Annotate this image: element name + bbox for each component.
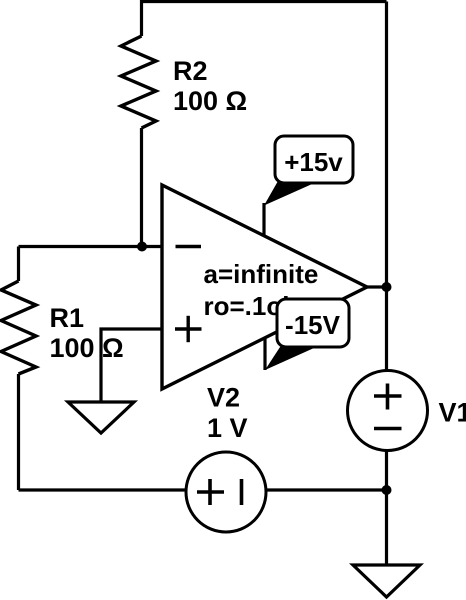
op-amp U1 non-inverting input plus sign (175, 316, 202, 342)
wire inverting input from R1/R2 node to op-amp (19, 245, 163, 248)
svg-text:1 V: 1 V (207, 413, 248, 443)
V1 plus sign (374, 384, 402, 410)
wire V+ power pin stub (262, 203, 265, 236)
wire top feedback from R2 top to right rail (142, 2, 387, 37)
svg-text:100 Ω: 100 Ω (173, 86, 247, 116)
voltage source V2 circle (186, 452, 266, 532)
net flag +15v tail (264, 181, 311, 206)
op-amp U1 triangle (162, 185, 367, 389)
wire from V2 to bottom node (226, 488, 387, 491)
svg-text:R1: R1 (50, 303, 85, 333)
wire R1 bottom lead down left side (17, 374, 20, 490)
V2 minus bar (240, 479, 244, 505)
ground bottom right (353, 565, 420, 597)
wire V- power pin stub (263, 337, 266, 370)
svg-text:100 Ω: 100 Ω (50, 333, 124, 363)
node op-amp output on right rail (382, 282, 392, 292)
ground at op-amp non-inverting input (68, 402, 134, 433)
V2 plus sign (197, 479, 224, 505)
node bottom junction V1 V2 ground (382, 485, 392, 495)
wire R2 bottom lead (140, 128, 143, 247)
svg-text:V1: V1 (439, 398, 466, 428)
wire right rail (385, 2, 388, 566)
resistor R2 (121, 36, 156, 128)
net flag -15V tail (265, 344, 314, 370)
net flag -15V box (277, 299, 349, 347)
svg-text:R2: R2 (173, 56, 208, 86)
svg-text:-15V: -15V (285, 310, 341, 340)
svg-text:+15v: +15v (284, 147, 343, 177)
svg-text:a=infinite: a=infinite (204, 259, 319, 289)
svg-text:V2: V2 (207, 383, 240, 413)
wire R1 top lead (17, 247, 20, 282)
voltage source V1 circle (348, 371, 428, 451)
node junction R1 R2 inverting input (137, 242, 147, 252)
op-amp U1 inverting input minus sign (176, 245, 202, 248)
resistor R1 (1, 281, 36, 374)
net flag +15v box (275, 136, 353, 183)
wire non-inverting input to ground (101, 329, 162, 402)
wire bottom from R1 to V2 (19, 488, 227, 491)
wire op-amp output to right rail (367, 285, 387, 288)
V1 minus sign (374, 427, 402, 431)
